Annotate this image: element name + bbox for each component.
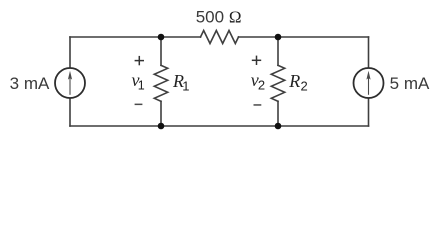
- svg-text:3 mA: 3 mA: [10, 74, 50, 93]
- svg-text:R: R: [288, 71, 300, 91]
- svg-text:5 mA: 5 mA: [390, 74, 430, 93]
- svg-text:1: 1: [182, 79, 189, 94]
- svg-text:1: 1: [138, 78, 145, 92]
- svg-text:2: 2: [301, 79, 308, 94]
- svg-text:2: 2: [258, 78, 265, 93]
- svg-text:500 Ω: 500 Ω: [196, 8, 242, 27]
